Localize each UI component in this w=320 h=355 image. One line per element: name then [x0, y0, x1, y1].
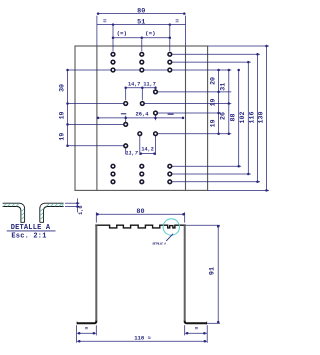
- leader hole E left: [68, 123, 126, 125]
- front dim 80 extension lines: [95, 212, 97, 222]
- front flange equal dim right: [184, 325, 186, 335]
- dim 80 extension lines: [96, 16, 98, 46]
- svg-text:11,7: 11,7: [125, 151, 138, 157]
- svg-text:DETALLE A: DETALLE A: [152, 243, 166, 246]
- svg-text:=: =: [103, 18, 107, 25]
- leader hole G right: [156, 133, 232, 135]
- top view left bend line: [96, 46, 98, 190]
- svg-text:11,7: 11,7: [143, 82, 155, 88]
- leader row3 top cluster full width: [68, 69, 232, 71]
- svg-text:Esc. 2:1: Esc. 2:1: [11, 233, 46, 241]
- svg-text:19: 19: [209, 98, 216, 106]
- dim 51 line: [97, 24, 186, 26]
- svg-text:26: 26: [220, 112, 227, 120]
- detail circle: [163, 219, 179, 235]
- svg-text:91: 91: [208, 267, 216, 275]
- front view right flange with corner radius: [185, 321, 207, 324]
- leader hole C right: [142, 103, 231, 105]
- svg-text:20: 20: [209, 77, 216, 85]
- front view top edge with notches: [95, 225, 185, 228]
- leader bottom row2 right: [171, 173, 251, 175]
- svg-text:19: 19: [59, 111, 66, 119]
- svg-text:=: =: [85, 325, 89, 332]
- leader bottom edge right: [208, 189, 269, 191]
- left dim line 30-19-19: [67, 70, 69, 146]
- right dim line 20-19-19: [218, 70, 220, 134]
- dim 14,7 11,7 line: [126, 87, 156, 89]
- front dim 118 extension lines: [76, 325, 78, 343]
- top view right bend line: [185, 46, 187, 190]
- ext lines for 14,7 dim: [125, 89, 127, 100]
- top cluster holes 3x3: [111, 52, 115, 56]
- leader hole A right: [156, 91, 232, 93]
- leader bottom row3 right: [171, 181, 260, 183]
- front flange equal dim left: [95, 325, 97, 335]
- svg-text:19: 19: [209, 119, 216, 127]
- svg-text:14,7: 14,7: [128, 82, 140, 88]
- leader top row1 to right dims: [171, 53, 260, 55]
- dim 51 extension lines: [112, 26, 114, 51]
- ext hole D to 26,4 line: [155, 115, 157, 120]
- svg-text:51: 51: [137, 18, 145, 26]
- right dim line 130: [266, 46, 268, 190]
- ext hole E to 26,4 line: [125, 116, 127, 122]
- leader hole H left: [68, 145, 126, 147]
- detail A sheet section with flanged hole: [3, 203, 64, 222]
- front view left wall: [95, 225, 97, 321]
- svg-text:116: 116: [248, 112, 255, 124]
- detail A hatch: [3, 203, 63, 219]
- svg-text:102: 102: [239, 112, 246, 124]
- detail circle leader: [166, 234, 173, 241]
- front dim 91 leaders: [186, 224, 220, 226]
- middle cluster holes: [154, 90, 158, 94]
- svg-text:26,4: 26,4: [136, 111, 150, 117]
- svg-text:80: 80: [137, 8, 145, 16]
- right dim line 31-26: [228, 70, 230, 134]
- dim 1,6 of sheet thickness: [65, 202, 79, 204]
- svg-text:(=): (=): [145, 30, 155, 37]
- top view plate outline: [75, 46, 208, 190]
- leader top row2 to right dims: [171, 61, 251, 63]
- svg-text:130: 130: [257, 112, 264, 124]
- leader top edge right: [208, 45, 269, 47]
- extension middle column: [141, 39, 143, 51]
- svg-text:88: 88: [230, 114, 237, 122]
- front view left flange with corner radius: [77, 321, 97, 324]
- svg-text:31: 31: [220, 83, 227, 91]
- dash mark left of 26,4: [121, 113, 126, 115]
- leader hole B left: [68, 103, 126, 105]
- bottom cluster holes 3x3: [111, 164, 115, 168]
- right dim line 116: [257, 54, 259, 182]
- svg-text:19: 19: [59, 133, 66, 141]
- right dim line 102: [247, 62, 249, 174]
- svg-text:30: 30: [59, 84, 66, 92]
- dim 80 line: [97, 13, 186, 15]
- right dim line 88: [238, 70, 240, 166]
- dash mark right of 26,4: [168, 113, 174, 115]
- front view right wall: [184, 225, 186, 321]
- svg-text:14,2: 14,2: [141, 147, 153, 153]
- front dim 91 line: [217, 225, 219, 323]
- leader bottom row1 right: [171, 165, 241, 167]
- dim 14,2: [139, 136, 141, 155]
- svg-text:=: =: [195, 325, 199, 332]
- front dim 80 line: [96, 213, 184, 215]
- svg-text:80: 80: [136, 208, 144, 216]
- svg-text:118 ≈: 118 ≈: [134, 335, 151, 342]
- dim 26,4 line: [97, 117, 184, 119]
- svg-text:(=): (=): [117, 30, 127, 37]
- dim 11,7 leader and text: [125, 148, 127, 154]
- dim equal spacing line: [113, 37, 170, 39]
- leader hole D right: [156, 112, 222, 114]
- svg-text:=: =: [175, 18, 179, 25]
- svg-text:1,6: 1,6: [78, 206, 84, 215]
- front dim 118 line: [77, 340, 208, 342]
